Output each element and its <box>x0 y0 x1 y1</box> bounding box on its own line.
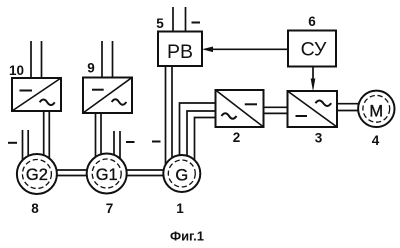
svg-text:Фиг.1: Фиг.1 <box>170 229 204 244</box>
svg-text:6: 6 <box>308 14 316 29</box>
svg-text:СУ: СУ <box>301 39 327 61</box>
svg-text:1: 1 <box>176 201 184 216</box>
svg-text:РВ: РВ <box>167 41 193 63</box>
svg-text:5: 5 <box>156 16 164 31</box>
svg-text:9: 9 <box>87 61 95 76</box>
svg-text:7: 7 <box>106 201 114 216</box>
svg-text:10: 10 <box>9 63 24 78</box>
svg-text:4: 4 <box>372 133 380 148</box>
svg-text:3: 3 <box>315 131 323 146</box>
svg-text:8: 8 <box>31 201 39 216</box>
svg-text:G2: G2 <box>26 166 48 184</box>
svg-text:G1: G1 <box>96 166 118 184</box>
svg-text:2: 2 <box>233 130 241 145</box>
svg-text:M: M <box>369 102 383 120</box>
svg-text:G: G <box>175 167 188 185</box>
